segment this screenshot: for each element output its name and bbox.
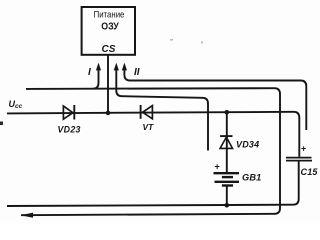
node: junction of battery lead and bottom return line — [225, 203, 230, 208]
svg-text:VT: VT — [143, 122, 155, 132]
block U1: RAM power supply box (Питание ОЗУ) — [82, 7, 135, 55]
arrowhead II-b — [122, 63, 127, 71]
wire: option-II first branch (arrow to stub near VD34 anode) — [116, 66, 208, 151]
node: junction of CS line and Ucc rail — [106, 111, 111, 116]
arrowhead: bottom left pointing left — [21, 213, 34, 218]
wire: Ucc rail from left edge to right corner down to C15 top — [7, 112, 299, 157]
svg-text:C15: C15 — [301, 167, 319, 177]
capacitor C15 — [286, 158, 312, 161]
wire: CS vertical line from box to Ucc rail — [107, 55, 109, 113]
wire: option-II second branch (arrow to right-side stub) — [124, 66, 306, 130]
node: junction of Ucc rail and battery branch — [225, 110, 230, 115]
wire: branch from Ucc junction down to VD34 — [226, 112, 228, 172]
wire: bottom return line from left edge to C15 bottom — [7, 161, 299, 206]
svg-text:ОЗУ: ОЗУ — [101, 21, 119, 32]
wire: option-I line (left stub to arrow I) — [93, 66, 99, 89]
svg-text:VD34: VD34 — [236, 140, 259, 150]
wire: return loop from L2 down right side to bottom arrow line — [21, 88, 280, 215]
arrowhead II-a — [114, 63, 119, 71]
scan artifact: left edge dash — [0, 122, 3, 126]
diode VD23 — [63, 105, 74, 120]
diode VD34 (pointing up) — [220, 136, 232, 148]
svg-text:II: II — [134, 67, 140, 78]
wire: battery negative to ground line — [226, 187, 228, 206]
svg-text:CS: CS — [102, 44, 116, 55]
svg-text:+: + — [301, 144, 306, 154]
svg-text:VD23: VD23 — [58, 124, 81, 134]
scan artifact: faint specks — [170, 39, 173, 41]
svg-text:+: + — [215, 162, 220, 172]
svg-text:GB1: GB1 — [242, 173, 262, 183]
battery GB1 — [214, 173, 240, 185]
arrowhead I — [96, 63, 101, 71]
svg-text:Питание: Питание — [94, 10, 125, 20]
svg-text:I: I — [88, 67, 91, 78]
diode VT (pointing left) — [141, 105, 153, 119]
